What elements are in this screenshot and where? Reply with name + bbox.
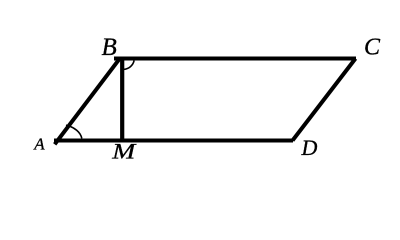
svg-text:M: M [111,139,137,164]
side CD [293,59,356,141]
angle arc at B [123,61,134,70]
svg-text:D: D [301,135,318,160]
svg-text:B: B [102,34,117,61]
side AD (bottom) [54,139,293,143]
altitude BM [120,58,124,141]
side AB [55,58,121,145]
side BC (top) [114,57,356,61]
svg-text:A: A [33,135,45,154]
angle arc at A [66,125,82,138]
svg-text:C: C [364,35,381,61]
